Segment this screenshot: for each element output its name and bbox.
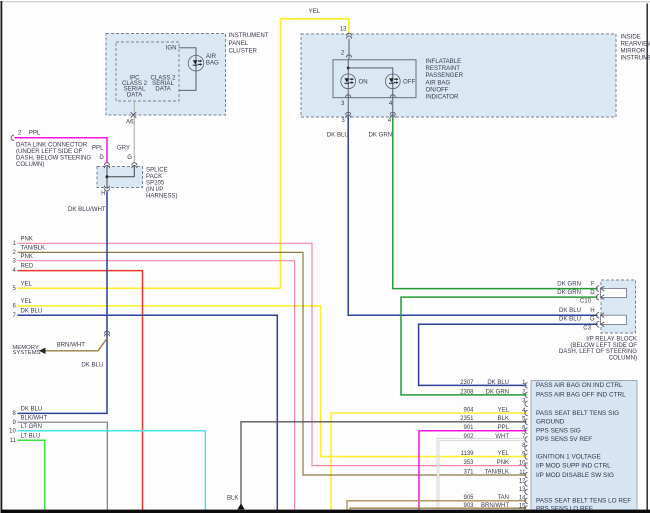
svg-text:14: 14: [519, 496, 526, 502]
svg-text:BLK: BLK: [498, 416, 509, 422]
svg-text:13: 13: [340, 26, 347, 33]
svg-text:DK GRN: DK GRN: [368, 131, 392, 138]
svg-text:PNK: PNK: [497, 460, 509, 466]
svg-text:PASSENGER: PASSENGER: [426, 72, 464, 79]
svg-text:MIRROR: MIRROR: [621, 47, 646, 54]
svg-text:1139: 1139: [461, 451, 475, 457]
svg-text:D: D: [590, 289, 595, 296]
svg-text:G: G: [590, 316, 595, 323]
svg-text:11: 11: [10, 438, 17, 444]
svg-text:904: 904: [463, 407, 474, 413]
svg-text:PPL: PPL: [92, 145, 104, 152]
svg-text:GRY: GRY: [117, 145, 130, 152]
svg-text:IGNITION 1 VOLTAGE: IGNITION 1 VOLTAGE: [536, 453, 601, 460]
svg-text:INFLATABLE: INFLATABLE: [426, 58, 462, 65]
svg-text:A6: A6: [126, 118, 134, 125]
svg-text:PPS SENS SIG: PPS SENS SIG: [536, 428, 581, 435]
svg-text:TAN/BLK: TAN/BLK: [21, 246, 46, 252]
svg-text:2: 2: [341, 50, 345, 57]
svg-text:PNK: PNK: [21, 254, 33, 260]
svg-text:H: H: [101, 190, 105, 197]
svg-text:INSTRUMENT: INSTRUMENT: [229, 32, 269, 39]
svg-text:F: F: [591, 281, 595, 288]
svg-text:COLUMN): COLUMN): [609, 354, 637, 361]
svg-text:D: D: [99, 154, 104, 161]
svg-text:H: H: [590, 307, 594, 314]
svg-text:YEL: YEL: [498, 407, 510, 413]
svg-text:C3: C3: [583, 324, 591, 331]
svg-text:YEL: YEL: [21, 299, 33, 305]
svg-text:PPL: PPL: [29, 129, 41, 136]
svg-text:SYSTEMS: SYSTEMS: [12, 350, 40, 356]
svg-text:10: 10: [9, 428, 16, 434]
svg-text:11: 11: [519, 470, 526, 476]
svg-text:DK GRN: DK GRN: [486, 389, 509, 395]
svg-text:TAN: TAN: [497, 495, 509, 501]
svg-text:903: 903: [463, 503, 474, 509]
svg-text:YEL: YEL: [498, 451, 510, 457]
svg-text:BRN/WHT: BRN/WHT: [57, 341, 86, 348]
svg-text:AIR BAG: AIR BAG: [426, 79, 451, 86]
svg-text:RED: RED: [21, 264, 34, 270]
svg-text:INDICATOR: INDICATOR: [426, 94, 460, 101]
svg-text:YEL: YEL: [309, 8, 321, 15]
svg-text:I/P MOD SUPP IND CTRL: I/P MOD SUPP IND CTRL: [536, 462, 611, 469]
svg-text:PPS SENS 5V REF: PPS SENS 5V REF: [536, 436, 592, 443]
svg-text:HARNESS): HARNESS): [146, 193, 178, 200]
svg-text:PANEL: PANEL: [229, 40, 249, 47]
svg-text:C10: C10: [580, 298, 592, 305]
svg-text:902: 902: [463, 434, 474, 440]
svg-text:12: 12: [519, 478, 526, 484]
svg-text:BAG: BAG: [206, 60, 219, 67]
svg-text:DK BLU: DK BLU: [559, 307, 581, 314]
svg-text:WHT: WHT: [495, 434, 509, 440]
svg-text:15: 15: [519, 503, 526, 509]
svg-text:353: 353: [463, 460, 474, 466]
svg-text:LT BLU: LT BLU: [21, 433, 41, 439]
svg-text:CLUSTER: CLUSTER: [229, 48, 258, 55]
svg-text:PASS AIR BAG OFF IND CTRL: PASS AIR BAG OFF IND CTRL: [536, 392, 626, 399]
svg-text:2351: 2351: [460, 416, 474, 422]
svg-text:OFF: OFF: [403, 79, 415, 86]
svg-text:IGN: IGN: [166, 45, 177, 52]
svg-text:DATA: DATA: [155, 86, 171, 93]
svg-text:LT GRN: LT GRN: [21, 424, 42, 430]
svg-text:2307: 2307: [460, 380, 474, 386]
svg-text:DK BLU: DK BLU: [327, 131, 349, 138]
svg-text:INSTRUMENT: INSTRUMENT: [621, 54, 650, 61]
svg-text:PASS SEAT BELT TENS LO REF: PASS SEAT BELT TENS LO REF: [536, 498, 631, 505]
svg-text:905: 905: [463, 495, 474, 501]
svg-text:PASS AIR BAG ON IND CTRL: PASS AIR BAG ON IND CTRL: [536, 382, 623, 389]
svg-text:4: 4: [389, 100, 393, 107]
svg-text:PPL: PPL: [498, 425, 510, 431]
svg-text:3: 3: [341, 117, 345, 124]
svg-text:G: G: [127, 154, 132, 161]
svg-text:371: 371: [463, 469, 474, 475]
svg-text:BLK/WHT: BLK/WHT: [21, 415, 48, 421]
svg-text:DK BLU: DK BLU: [81, 362, 103, 369]
svg-text:DK BLU/WHT: DK BLU/WHT: [68, 206, 106, 213]
svg-text:10: 10: [519, 460, 526, 466]
svg-text:BRN/WHT: BRN/WHT: [481, 503, 509, 509]
svg-text:PASS SEAT BELT TENS SIG: PASS SEAT BELT TENS SIG: [536, 410, 619, 417]
svg-text:TAN/BLK: TAN/BLK: [484, 469, 509, 475]
svg-text:DATA: DATA: [127, 91, 143, 98]
svg-text:DK BLU: DK BLU: [487, 380, 509, 386]
svg-text:DK BLU: DK BLU: [559, 316, 581, 323]
svg-text:2308: 2308: [460, 389, 474, 395]
svg-text:COLUMN): COLUMN): [16, 161, 44, 168]
svg-text:DK GRN: DK GRN: [557, 289, 581, 296]
svg-text:DK BLU: DK BLU: [21, 308, 43, 314]
svg-text:ON: ON: [359, 79, 368, 86]
svg-text:ON/OFF: ON/OFF: [426, 86, 449, 93]
svg-text:DK BLU: DK BLU: [21, 407, 43, 413]
svg-text:GROUND: GROUND: [536, 419, 565, 426]
svg-text:INSIDE: INSIDE: [621, 33, 641, 40]
svg-text:YEL: YEL: [21, 281, 33, 287]
svg-text:13: 13: [519, 487, 526, 493]
svg-text:DK GRN: DK GRN: [557, 281, 581, 288]
svg-text:901: 901: [463, 425, 474, 431]
svg-text:BLK: BLK: [227, 495, 239, 502]
svg-text:PNK: PNK: [21, 236, 33, 242]
svg-text:REARVIEW: REARVIEW: [621, 40, 650, 47]
svg-text:RESTRAINT: RESTRAINT: [426, 65, 461, 72]
svg-text:I/P MOD DISABLE SW SIG: I/P MOD DISABLE SW SIG: [536, 472, 614, 479]
